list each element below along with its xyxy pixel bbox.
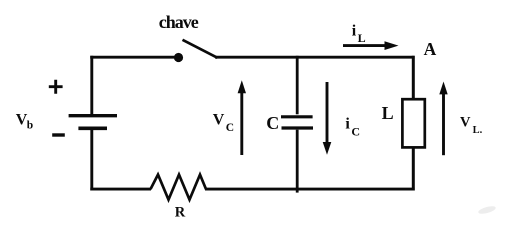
switch blade (chave) — [183, 40, 218, 58]
wire top-right horizontal — [215, 56, 415, 59]
svg-text:b: b — [27, 120, 33, 132]
svg-text:V: V — [213, 112, 225, 129]
arrow VC (up) — [238, 80, 246, 155]
svg-text:C: C — [351, 125, 360, 139]
arrow iL (right) — [343, 41, 399, 50]
battery minus sign — [52, 133, 65, 136]
faint scan smudge — [478, 205, 497, 215]
wire bottom left segment — [90, 188, 151, 191]
svg-text:chave: chave — [159, 12, 199, 32]
svg-text:i: i — [345, 116, 350, 133]
wire right vertical lower — [412, 147, 415, 191]
battery Vb top plate — [69, 114, 117, 117]
wire top-left horizontal — [90, 56, 175, 59]
capacitor C bottom plate — [282, 126, 314, 129]
capacitor C top plate — [281, 115, 313, 118]
wire right vertical upper — [412, 56, 415, 100]
arrow VL (up) — [439, 82, 447, 156]
svg-text:C: C — [226, 122, 234, 134]
resistor R zigzag — [151, 175, 207, 200]
svg-text:L.: L. — [473, 125, 483, 136]
svg-text:V: V — [460, 115, 471, 131]
wire middle vertical upper — [296, 56, 299, 115]
inductor L box — [402, 99, 424, 147]
wire middle vertical lower — [296, 130, 299, 193]
battery plus sign — [49, 80, 63, 94]
svg-text:A: A — [424, 39, 437, 59]
svg-text:L: L — [382, 103, 394, 123]
svg-text:R: R — [175, 204, 186, 220]
svg-text:C: C — [266, 113, 279, 133]
svg-text:L: L — [358, 31, 366, 45]
arrow iC (down) — [323, 82, 332, 155]
switch node dot — [174, 53, 183, 62]
wire bottom right segment — [205, 188, 415, 191]
svg-text:i: i — [352, 22, 357, 39]
wire left vertical lower — [90, 130, 93, 191]
battery Vb bottom plate — [78, 126, 107, 130]
wire left vertical upper — [90, 56, 93, 114]
